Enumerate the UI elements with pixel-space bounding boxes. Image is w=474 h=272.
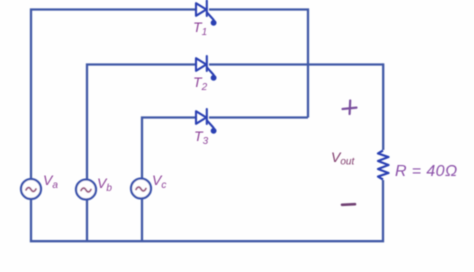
svg-text:R = 40Ω: R = 40Ω	[395, 163, 458, 180]
svg-text:Vout: Vout	[331, 149, 355, 168]
svg-text:Va: Va	[43, 172, 58, 191]
svg-text:T1: T1	[193, 19, 207, 38]
svg-text:Vc: Vc	[152, 172, 166, 191]
svg-text:T2: T2	[193, 74, 208, 93]
svg-text:Vb: Vb	[97, 175, 112, 194]
svg-text:T3: T3	[194, 128, 209, 147]
